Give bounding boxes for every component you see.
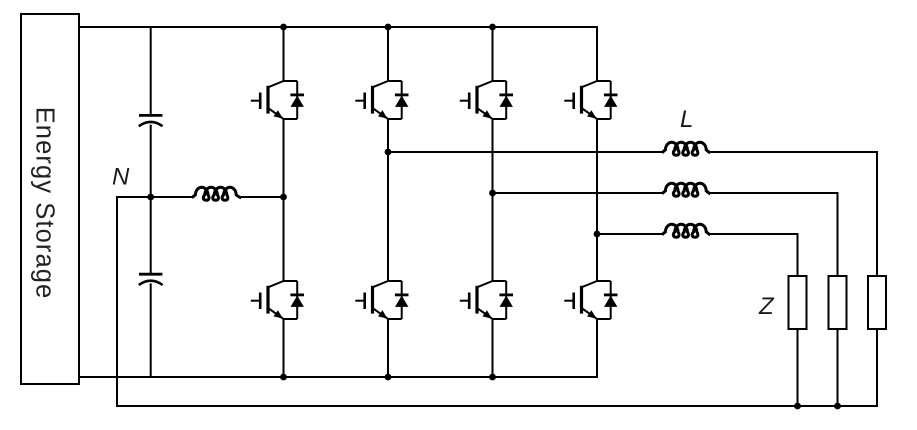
transistor Q5 (leg 3 top IGBT): [460, 81, 506, 119]
junction leg 1 / DC+ rail: [280, 24, 287, 31]
junction neutral / cap midpoint: [147, 194, 154, 201]
transistor Q4 (leg 2 bottom IGBT): [355, 281, 401, 319]
resistor Z2 (load): [829, 276, 847, 329]
transistor Q1 (leg 1 top IGBT): [251, 81, 297, 119]
wire phase A load drop: [876, 152, 878, 276]
svg-text:Z: Z: [758, 293, 775, 320]
wire DC link cap branch upper: [150, 27, 152, 114]
wire phase C (leg 4 to inductor): [597, 233, 662, 235]
wire leg 3 lower: [492, 319, 494, 377]
diode D3 (anti-parallel, leg 2 top): [395, 81, 409, 119]
diode D2 (anti-parallel, leg 1 bottom): [290, 281, 304, 319]
wire DC link cap branch lower: [150, 284, 152, 377]
node phase B junction (leg 3 midpoint): [489, 190, 496, 197]
wire neutral bottom line: [117, 405, 877, 407]
svg-text:Energy Storage: Energy Storage: [31, 107, 59, 300]
transistor Q8 (leg 4 bottom IGBT): [564, 281, 610, 319]
wire leg 2 middle: [387, 119, 389, 281]
junction leg 3 / DC+ rail: [489, 24, 496, 31]
wire Z2 to neutral: [837, 329, 839, 406]
wire DC+ top rail: [79, 26, 597, 28]
transistor Q6 (leg 3 bottom IGBT): [460, 281, 506, 319]
wire phase C (inductor to load): [710, 233, 798, 235]
diode D1 (anti-parallel, leg 1 top): [290, 81, 304, 119]
energy storage source (battery box): [21, 14, 79, 384]
resistor Z3 (load): [868, 276, 886, 329]
diode D4 (anti-parallel, leg 2 bottom): [395, 281, 409, 319]
wire Z3 to neutral: [876, 329, 878, 406]
wire leg 2 upper: [387, 27, 389, 81]
wire neutral horizontal (N node to leg 1): [117, 196, 192, 198]
wire leg 1 upper: [283, 27, 285, 81]
transistor Q3 (leg 2 top IGBT): [355, 81, 401, 119]
wire phase C load drop: [797, 234, 799, 276]
diode D8 (anti-parallel, leg 4 bottom): [604, 281, 618, 319]
inductor Ln (neutral): [192, 187, 241, 200]
junction Z2 / neutral line: [834, 403, 841, 410]
wire DC- bottom rail: [79, 376, 597, 378]
node phase C junction (leg 4 midpoint): [594, 231, 601, 238]
wire leg 4 middle: [596, 119, 598, 281]
svg-text:N: N: [112, 164, 130, 191]
wire phase B (inductor to load): [710, 192, 838, 194]
wire phase B (leg 3 to inductor): [493, 192, 663, 194]
node N junction (leg 1 midpoint): [280, 194, 287, 201]
diode D7 (anti-parallel, leg 4 top): [604, 81, 618, 119]
diode D5 (anti-parallel, leg 3 top): [499, 81, 513, 119]
diode D6 (anti-parallel, leg 3 bottom): [499, 281, 513, 319]
junction Z1 / neutral line: [794, 403, 801, 410]
inductor Lb (phase B): [662, 183, 710, 196]
capacitor C2: [139, 273, 162, 276]
inductor Lc (phase C): [662, 224, 710, 237]
wire phase A (leg 2 to inductor): [388, 151, 662, 153]
capacitor C1: [139, 114, 162, 117]
inductor La (phase A): [662, 142, 710, 155]
node phase A junction (leg 2 midpoint): [385, 149, 392, 156]
junction leg 1 / DC- rail: [280, 374, 287, 381]
svg-text:L: L: [680, 106, 693, 133]
transistor Q2 (leg 1 bottom IGBT): [251, 281, 297, 319]
wire phase B load drop: [837, 193, 839, 276]
wire Z1 to neutral: [797, 329, 799, 406]
junction leg 3 / DC- rail: [489, 374, 496, 381]
wire leg 3 middle: [492, 119, 494, 281]
wire leg 1 middle: [283, 119, 285, 281]
wire leg 2 lower: [387, 319, 389, 377]
junction leg 2 / DC- rail: [385, 374, 392, 381]
wire phase A (inductor to load): [710, 151, 877, 153]
wire leg 1 lower: [283, 319, 285, 377]
wire neutral vertical: [116, 197, 118, 406]
wire leg 4 upper: [596, 27, 598, 81]
wire leg 3 upper: [492, 27, 494, 81]
transistor Q7 (leg 4 top IGBT): [564, 81, 610, 119]
wire between C1 and C2: [150, 126, 152, 273]
junction leg 2 / DC+ rail: [385, 24, 392, 31]
resistor Z1 (load): [789, 276, 807, 329]
wire leg 4 lower: [596, 319, 598, 377]
